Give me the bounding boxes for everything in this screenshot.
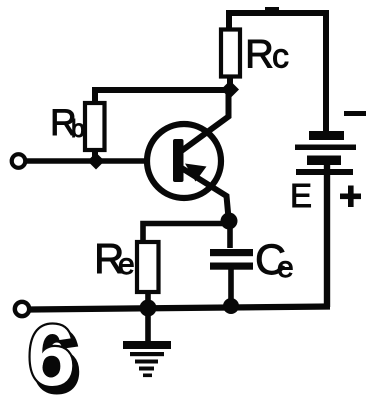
node emitter junction [221,213,238,230]
terminal input upper [12,154,26,168]
label plus [340,186,361,208]
node junction above ground [140,300,157,317]
svg-text:e: e [277,251,294,284]
ground [123,308,171,377]
label minus [344,111,366,116]
svg-text:c: c [272,38,289,76]
svg-text:e: e [118,248,135,281]
label Rc [245,33,289,77]
wire bottom rail [30,307,330,310]
capacitor Ce [210,221,253,305]
svg-text:6: 6 [28,308,76,404]
transistor Q1 [147,92,229,218]
wire from Rb top to collector node [95,90,230,103]
wire right vertical to battery [323,10,329,131]
wire top rail [226,9,329,13]
label Re [94,235,135,282]
svg-text:E: E [290,177,312,214]
svg-text:R: R [245,33,274,77]
wire base lead [26,158,150,164]
terminal input lower [15,302,29,316]
resistor Rc [221,11,240,84]
figure number 6 [28,308,80,404]
svg-text:b: b [71,115,85,143]
label E [290,177,312,214]
label Ce [255,236,294,284]
battery E [295,131,356,307]
node junction capacitor bottom [223,298,239,314]
node junction at base [88,153,105,170]
wire emitter to Re [143,224,229,243]
node junction below Rc [221,81,239,99]
resistor Rb [85,103,105,157]
resistor Re [137,242,159,307]
label Rb [50,102,85,143]
